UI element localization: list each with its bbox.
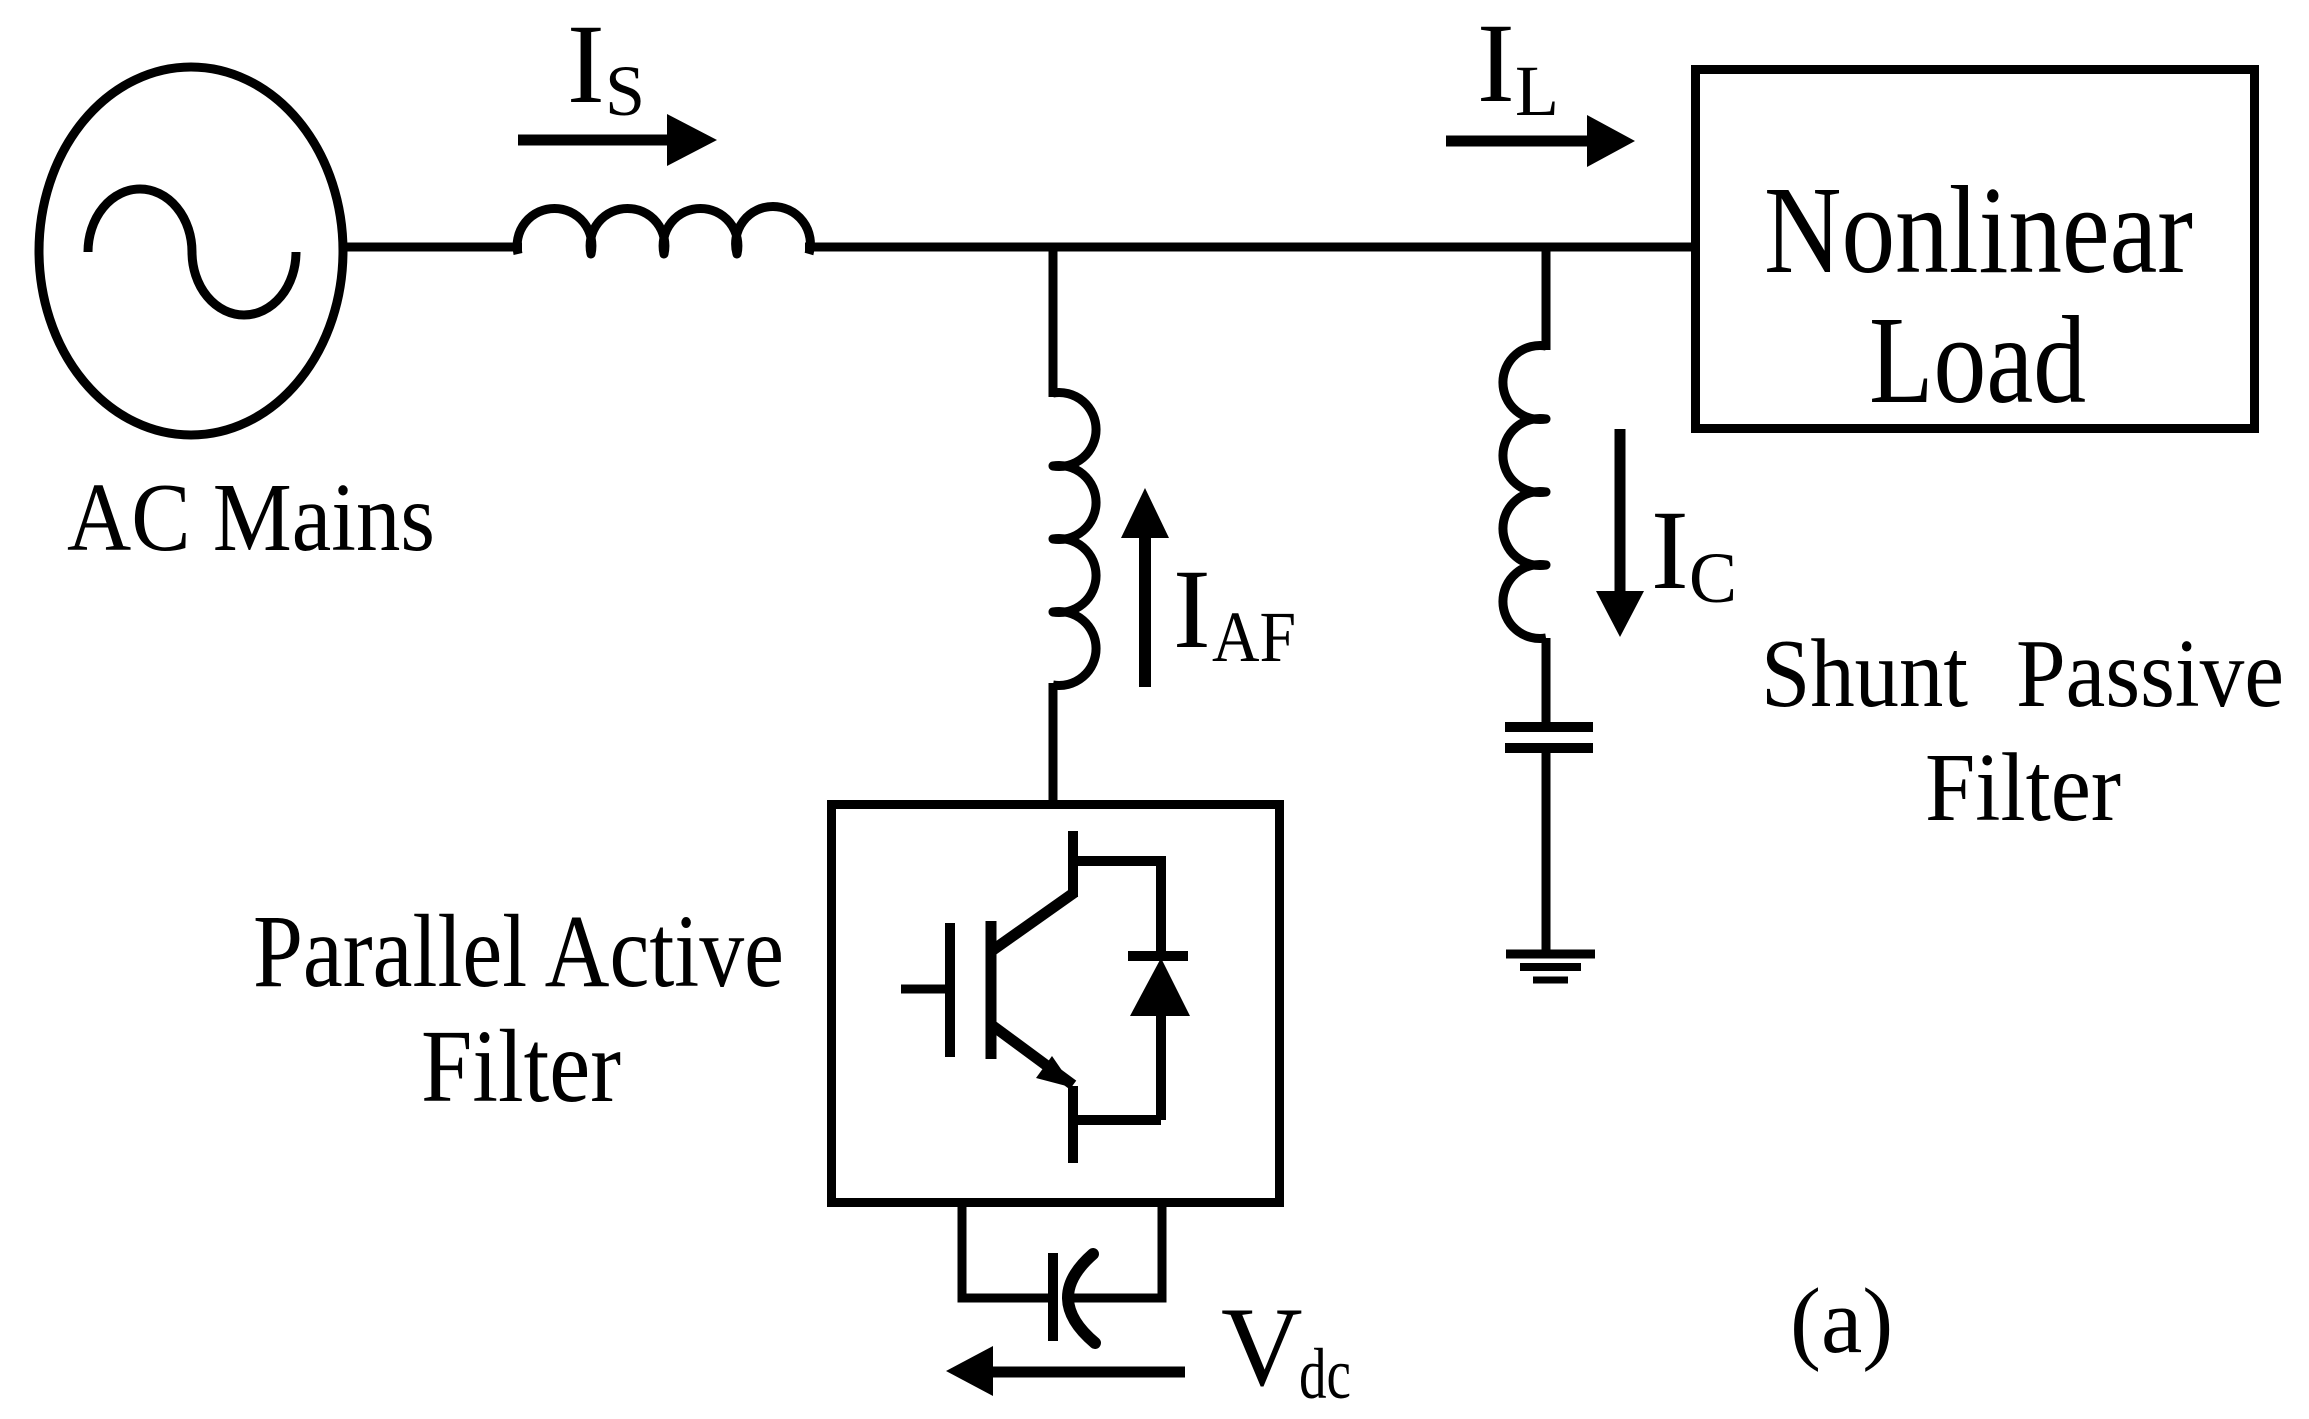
Parallel Active Filter box bbox=[832, 805, 1280, 1203]
label IL bbox=[1477, 1, 1559, 131]
arrow Iaf bbox=[1121, 488, 1169, 687]
label Ic bbox=[1651, 488, 1737, 618]
wire: PAF box to Cdc right lead bbox=[1072, 1203, 1162, 1298]
arrow Ic bbox=[1596, 429, 1644, 637]
svg-text:Nonlinear: Nonlinear bbox=[1764, 162, 2193, 300]
wire: PCC branch 2 down to Lpf bbox=[1542, 247, 1551, 350]
Parallel Active Filter label bbox=[253, 894, 784, 1124]
svg-text:Passive: Passive bbox=[2016, 620, 2284, 728]
wire: source to Ls bbox=[343, 243, 522, 252]
capacitor Cdc bbox=[1053, 1253, 1095, 1343]
svg-text:Parallel Active: Parallel Active bbox=[253, 894, 784, 1009]
svg-text:Filter: Filter bbox=[1925, 734, 2121, 842]
wire: PCC branch down to Laf bbox=[1049, 247, 1058, 397]
wire: Cpf to ground bbox=[1542, 753, 1551, 950]
ground bbox=[1506, 954, 1595, 980]
Shunt Passive Filter label bbox=[1761, 620, 2284, 842]
arrow Is bbox=[518, 114, 717, 166]
svg-text:AF: AF bbox=[1212, 597, 1296, 677]
AC source G1 bbox=[39, 67, 343, 435]
svg-text:Shunt: Shunt bbox=[1761, 620, 1968, 728]
wire: PAF box to Cdc left lead bbox=[962, 1203, 1050, 1298]
inductor Laf bbox=[1053, 392, 1096, 685]
svg-text:Load: Load bbox=[1869, 292, 2086, 430]
label Is bbox=[567, 2, 645, 131]
svg-text:I: I bbox=[1173, 547, 1211, 672]
svg-text:S: S bbox=[605, 51, 645, 131]
wire: Ls to load bbox=[805, 243, 1696, 252]
arrow Vdc bbox=[946, 1346, 1185, 1396]
svg-text:AC Mains: AC Mains bbox=[67, 464, 435, 572]
transistor Q1 (IGBT) bbox=[901, 831, 1075, 1163]
svg-text:I: I bbox=[1477, 1, 1515, 126]
svg-text:L: L bbox=[1515, 51, 1559, 131]
svg-text:I: I bbox=[1651, 488, 1689, 613]
label Iaf bbox=[1173, 547, 1296, 677]
label Vdc bbox=[1221, 1285, 1351, 1414]
svg-text:I: I bbox=[567, 2, 605, 127]
Nonlinear Load label bbox=[1764, 162, 2193, 430]
Nonlinear Load box bbox=[1696, 70, 2255, 429]
svg-text:V: V bbox=[1221, 1285, 1303, 1410]
diode D1 bbox=[1069, 856, 1190, 1120]
svg-text:Filter: Filter bbox=[421, 1009, 621, 1124]
svg-text:dc: dc bbox=[1299, 1334, 1351, 1414]
inductor Lpf bbox=[1503, 346, 1546, 639]
wire: Laf to PAF box bbox=[1049, 683, 1058, 804]
inductor Ls bbox=[517, 206, 810, 254]
wire: Lpf to Cpf bbox=[1542, 638, 1551, 724]
svg-text:(a): (a) bbox=[1790, 1270, 1893, 1373]
arrow IL bbox=[1446, 115, 1635, 167]
svg-text:C: C bbox=[1689, 538, 1737, 618]
capacitor Cpf bbox=[1505, 727, 1593, 748]
